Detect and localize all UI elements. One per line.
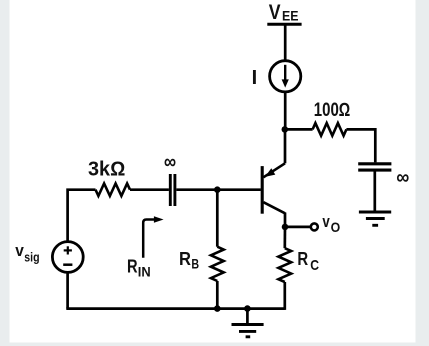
current source I xyxy=(270,61,301,92)
node ground junction dot xyxy=(244,305,251,312)
resistor 100ohm xyxy=(313,123,347,136)
svg-text:O: O xyxy=(331,220,341,235)
transistor Q1 (pnp) xyxy=(262,163,285,227)
ground right xyxy=(359,212,391,225)
svg-text:R: R xyxy=(179,248,191,269)
svg-text:∞: ∞ xyxy=(164,151,176,174)
capacitor input (series) xyxy=(170,174,175,206)
terminal vo open circle xyxy=(311,223,318,230)
wire collector to vo terminal xyxy=(285,226,311,229)
svg-text:V: V xyxy=(269,0,281,24)
supply rail VEE bar xyxy=(267,23,301,26)
svg-text:I: I xyxy=(252,67,258,89)
wire emitter lead xyxy=(284,129,287,163)
wire RC to bottom rail xyxy=(283,282,286,310)
wire node to 100ohm resistor xyxy=(285,128,313,131)
node emitter junction dot xyxy=(282,126,289,133)
svg-text:sig: sig xyxy=(24,249,39,264)
wire VEE bar to current source xyxy=(284,24,287,61)
label RC xyxy=(297,248,319,274)
wire top-left corner to vsig xyxy=(68,190,96,242)
label Rin xyxy=(127,255,151,279)
svg-text:100Ω: 100Ω xyxy=(314,100,351,121)
wire current source to emitter node xyxy=(284,92,287,131)
ground center xyxy=(232,325,264,337)
svg-text:∞: ∞ xyxy=(396,166,409,189)
label vsig xyxy=(15,241,39,264)
wire ground stem xyxy=(246,309,249,324)
svg-text:R: R xyxy=(297,248,308,269)
wire collector node to RC xyxy=(283,227,286,248)
svg-text:v: v xyxy=(15,241,24,260)
arrow Rin xyxy=(143,216,163,258)
svg-text:B: B xyxy=(191,257,199,272)
source vsig xyxy=(52,242,83,273)
node collector junction dot xyxy=(282,224,289,231)
wire RB to bottom rail xyxy=(216,281,219,309)
label vo xyxy=(322,212,340,235)
wire input cap to 3k resistor xyxy=(130,188,169,191)
wire base node to RB xyxy=(216,190,219,247)
wire vsig to bottom rail xyxy=(66,272,69,308)
label RB xyxy=(179,248,199,272)
label VEE xyxy=(269,0,299,24)
capacitor right (bypass) xyxy=(358,164,391,170)
resistor RC xyxy=(278,248,291,282)
resistor RB xyxy=(211,247,224,281)
node RB bottom junction dot xyxy=(214,305,221,312)
wire right capacitor to ground xyxy=(373,170,376,211)
node base junction dot xyxy=(214,186,221,193)
resistor 3k xyxy=(96,184,131,196)
wire 100ohm to right capacitor xyxy=(346,129,375,162)
svg-text:3kΩ: 3kΩ xyxy=(88,159,125,181)
svg-text:EE: EE xyxy=(282,8,299,24)
svg-text:IN: IN xyxy=(138,265,151,280)
wire base xyxy=(176,188,260,191)
wire bottom rail xyxy=(66,307,284,310)
svg-text:R: R xyxy=(127,255,138,276)
svg-text:C: C xyxy=(310,257,319,274)
svg-text:v: v xyxy=(322,212,330,231)
